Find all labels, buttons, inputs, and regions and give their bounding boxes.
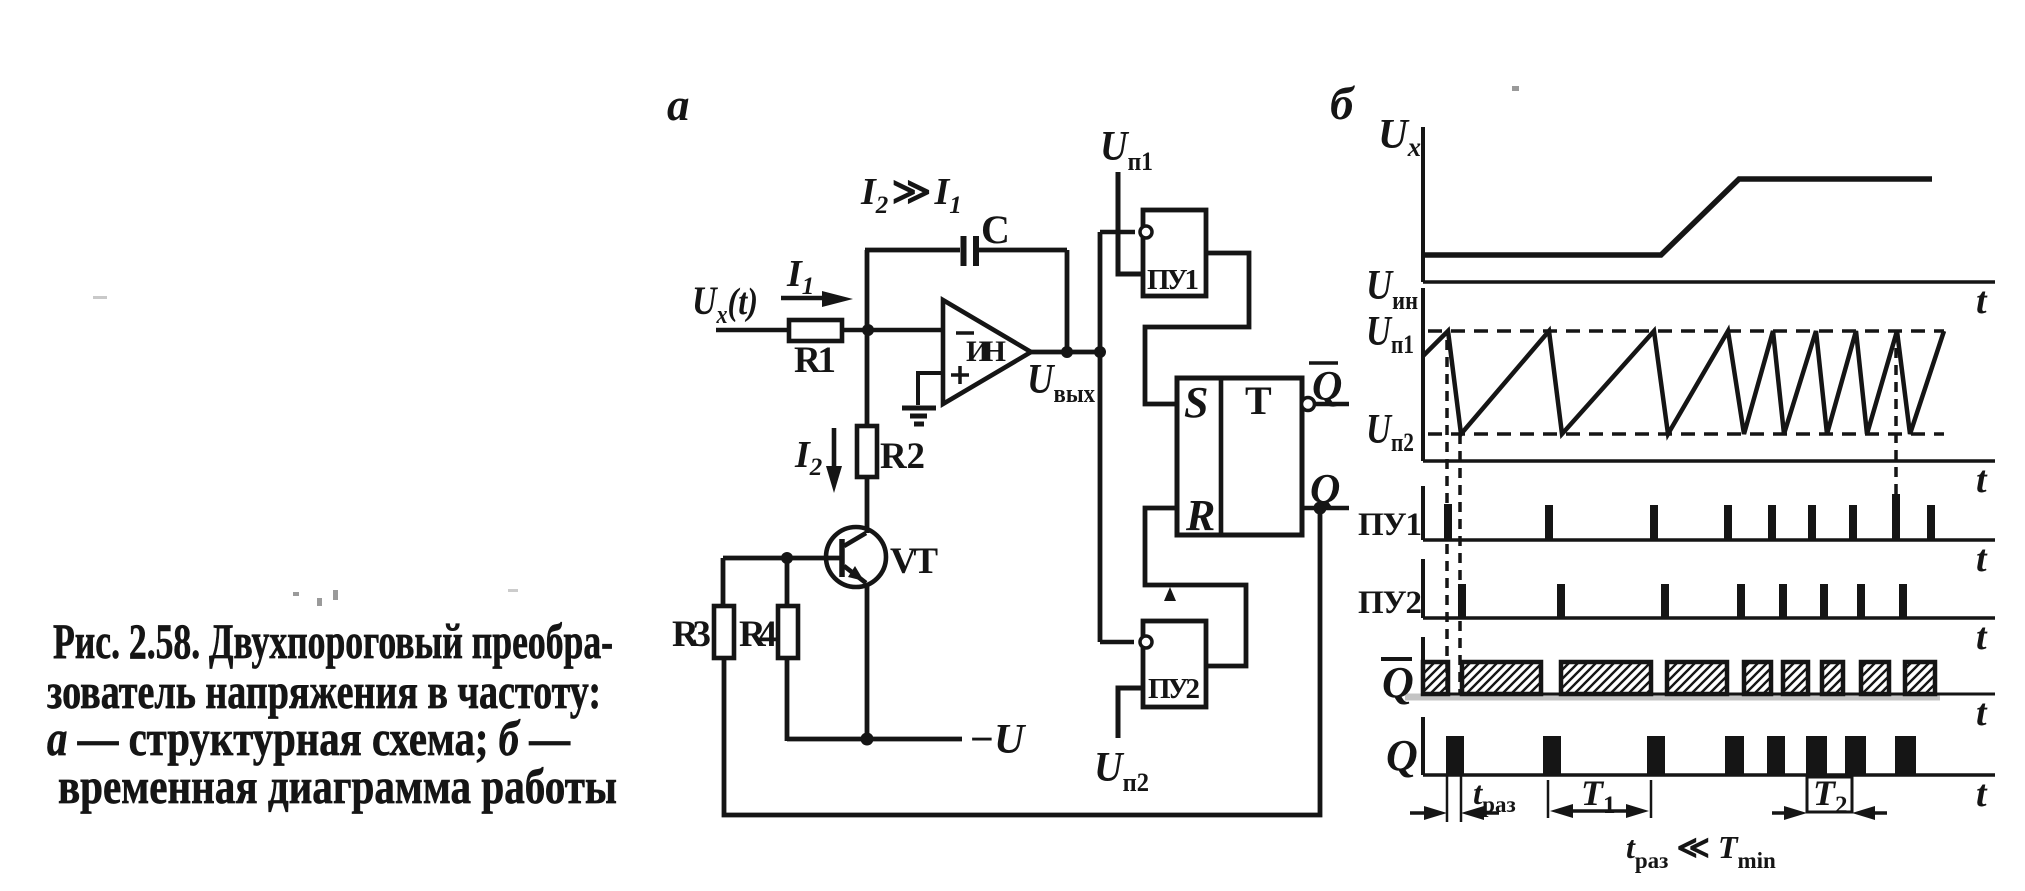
wire Un1 down to PU1 second input	[1118, 172, 1143, 274]
arrow on R wire	[1164, 587, 1176, 601]
flip-flop T box	[1177, 378, 1302, 535]
wire R4 bottom to -U rail	[785, 658, 790, 741]
wire op-amp output	[1031, 350, 1103, 355]
svg-text:ИН: ИН	[966, 335, 1006, 368]
axis PU1 horizontal	[1423, 538, 1995, 542]
axis PU2 horizontal	[1423, 616, 1995, 620]
dimension T2 arrows	[1772, 811, 1790, 815]
wire emitter down	[865, 585, 870, 739]
wire node up to feedback	[865, 250, 870, 330]
axis Ux vertical	[1421, 127, 1425, 282]
node Q feedback tap	[1314, 502, 1327, 515]
Qbar output circle	[1302, 398, 1315, 411]
capacitor C	[964, 236, 977, 266]
wire R2 to collector	[865, 477, 870, 533]
node base divider	[781, 552, 793, 564]
dimension t_raz arrows	[1410, 811, 1430, 815]
PU1 inverting input circle	[1140, 226, 1152, 238]
axis PU1 vertical	[1421, 486, 1425, 540]
op-amp plus sign	[951, 366, 969, 384]
svg-text:R2: R2	[880, 436, 925, 477]
wire R4 top	[785, 558, 790, 606]
wire feedback top right segment	[979, 248, 1067, 253]
ground	[902, 408, 936, 424]
wire feedback top left segment	[865, 248, 960, 253]
axis Ux horizontal	[1423, 280, 1995, 284]
comparator PU1 box	[1143, 210, 1206, 296]
solid bars Q	[1446, 736, 1916, 775]
resistor R4	[778, 606, 798, 658]
svg-text:временная диаграмма работы: временная диаграмма работы	[58, 758, 617, 814]
dimension t_raz extension lines	[1447, 775, 1461, 822]
svg-text:C: C	[981, 207, 1010, 252]
dashed marker line first bottom	[1458, 434, 1462, 694]
axis Q vertical	[1421, 717, 1425, 775]
hatched bars Qbar	[1423, 662, 1935, 694]
node feedback tap	[1061, 346, 1073, 358]
svg-text:а: а	[667, 80, 690, 130]
waveform Ux	[1425, 179, 1932, 255]
svg-text:R: R	[1185, 491, 1215, 540]
flip-flop divider	[1219, 378, 1224, 535]
svg-text:t: t	[1976, 459, 1988, 501]
wire -U rail	[787, 737, 962, 742]
svg-text:T: T	[1245, 378, 1272, 423]
arrow I1	[781, 296, 824, 301]
resistor R2	[857, 426, 877, 477]
svg-text:Q: Q	[1382, 658, 1414, 707]
axis Qbar smear	[1405, 694, 1940, 701]
wire R1 to op-amp inverting input	[842, 328, 943, 333]
svg-text:Q: Q	[1312, 364, 1342, 410]
wire noninverting input	[918, 373, 943, 405]
dashed marker line first peak	[1445, 340, 1449, 694]
svg-text:R3: R3	[672, 614, 711, 655]
axis Uin vertical	[1421, 288, 1425, 461]
svg-text:Q: Q	[1310, 467, 1340, 513]
dashed threshold Un1	[1428, 329, 1944, 333]
node output bus	[1094, 346, 1106, 358]
wire base	[723, 556, 840, 561]
PU2 inverting input circle	[1140, 636, 1152, 648]
node emitter rail	[861, 733, 874, 746]
axis Qbar horizontal	[1423, 693, 1995, 696]
svg-text:S: S	[1184, 378, 1208, 427]
transistor VT	[826, 527, 886, 587]
axis Qbar vertical	[1421, 637, 1425, 694]
op-amp minus sign	[956, 331, 974, 335]
svg-text:R4: R4	[739, 614, 777, 655]
wire bus to PU1 input	[1100, 230, 1135, 235]
svg-text:ПУ2: ПУ2	[1148, 673, 1200, 705]
svg-text:б: б	[1330, 78, 1356, 130]
wire Q feedback to bottom rail	[724, 508, 1320, 815]
dimension T1 extension lines	[1548, 780, 1651, 818]
svg-text:ПУ2: ПУ2	[1358, 585, 1422, 621]
comparator PU2 box	[1143, 621, 1206, 707]
scan specks	[93, 86, 1519, 606]
svg-text:t: t	[1976, 538, 1988, 580]
wire bus to PU2 input	[1100, 640, 1134, 645]
svg-text:ПУ1: ПУ1	[1147, 264, 1199, 296]
dimension T1 arrows	[1568, 809, 1632, 813]
box T2	[1807, 777, 1852, 812]
svg-text:−U: −U	[970, 717, 1027, 763]
node summing junction	[862, 324, 874, 336]
svg-text:t: t	[1976, 280, 1988, 322]
wire node to R2	[865, 330, 870, 426]
wire Qbar output	[1315, 402, 1349, 407]
dashed threshold Un2	[1428, 432, 1944, 436]
wire Un2 to PU2 second input	[1118, 688, 1143, 738]
svg-text:Q: Q	[1386, 731, 1418, 780]
resistor R3	[714, 606, 734, 658]
svg-text:ПУ1: ПУ1	[1358, 507, 1422, 543]
wire feedback down to output	[1065, 250, 1070, 352]
axis PU2 vertical	[1421, 559, 1425, 618]
axis Uin horizontal	[1423, 459, 1995, 463]
svg-text:I2 ≫ I1: I2 ≫ I1	[860, 171, 962, 219]
svg-text:Рис. 2.58. Двухпороговый преоб: Рис. 2.58. Двухпороговый преобра-	[53, 613, 613, 669]
svg-text:R1: R1	[794, 340, 836, 381]
op-amp U1 integrator	[943, 300, 1031, 404]
wire R3 top	[721, 558, 726, 606]
wire Q output	[1302, 506, 1349, 511]
svg-text:t: t	[1976, 616, 1988, 658]
waveform sawtooth Uin	[1423, 331, 1944, 434]
axis Q horizontal	[1423, 773, 1995, 777]
wire output bus vertical	[1098, 232, 1103, 642]
pulses PU2	[1462, 584, 1903, 618]
svg-text:t: t	[1976, 692, 1988, 734]
dashed marker line last peak	[1894, 331, 1898, 536]
resistor R1	[789, 320, 842, 341]
pulses PU1	[1448, 494, 1931, 540]
wire input to R1	[716, 328, 790, 333]
arrow I2	[832, 428, 837, 468]
svg-text:t: t	[1976, 773, 1988, 815]
wire PU1 output to S input	[1145, 253, 1249, 404]
wire PU2 output to R input	[1145, 508, 1246, 666]
svg-text:VT: VT	[890, 541, 938, 582]
